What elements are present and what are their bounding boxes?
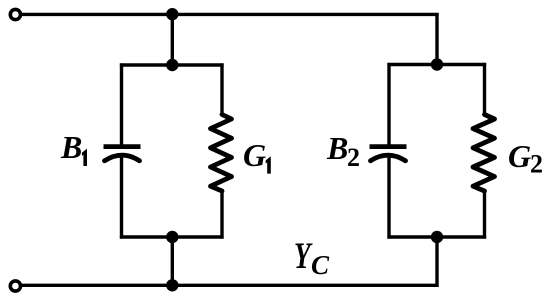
svg-text:G: G	[508, 138, 531, 174]
wire: B1 top lead	[120, 63, 123, 146]
wire: top horizontal conductor	[22, 13, 439, 16]
label G1	[243, 137, 271, 174]
terminal: bottom-left input (open circle)	[10, 281, 20, 291]
node: junction dot on network 1 bottom bar	[166, 231, 178, 243]
wire: network 1 top bar	[120, 63, 224, 66]
wire: network 2 top bar	[387, 63, 486, 66]
label YC	[294, 236, 330, 280]
wire: G1 bottom lead	[220, 191, 223, 239]
svg-text:B: B	[60, 129, 82, 165]
wire: G1 top lead	[220, 63, 223, 114]
resistor G1	[211, 115, 232, 192]
wire: network 2 bottom bar	[387, 235, 486, 238]
svg-text:C: C	[311, 250, 330, 280]
wire: bottom horizontal conductor	[22, 284, 439, 287]
node: junction dot on bottom conductor	[166, 279, 178, 291]
label B2	[326, 130, 360, 172]
resistor G2	[473, 115, 495, 192]
capacitor B2	[370, 147, 407, 161]
node: junction dot on network 2 bottom bar	[431, 231, 443, 243]
wire: vertical riser from bottom conductor to network 2 bottom bar	[435, 236, 438, 287]
label B1	[60, 129, 87, 166]
wire: G2 bottom lead	[483, 191, 486, 239]
wire: B2 bottom lead	[387, 155, 390, 239]
terminal: top-left input (open circle)	[10, 9, 20, 19]
wire: vertical stub from network 1 bottom bar to bottom conductor	[171, 237, 174, 286]
svg-text:2: 2	[530, 150, 543, 179]
node: junction dot on network 1 top bar	[166, 59, 178, 71]
wire: B1 bottom lead	[120, 155, 123, 239]
wire: B2 top lead	[387, 63, 390, 146]
node: junction dot on network 2 top bar	[431, 58, 443, 70]
svg-text:B: B	[326, 130, 348, 166]
wire: G2 top lead	[483, 63, 486, 115]
capacitor B1	[104, 147, 141, 161]
wire: network 1 bottom bar	[120, 235, 224, 238]
wire: vertical drop from top conductor to network 2 top bar	[435, 13, 438, 65]
svg-text:2: 2	[347, 143, 360, 172]
node: junction dot on top conductor	[166, 8, 178, 20]
label G2	[508, 138, 543, 179]
svg-text:G: G	[243, 137, 266, 173]
wire: vertical stub from top conductor down to network 1 top bar	[171, 14, 174, 65]
